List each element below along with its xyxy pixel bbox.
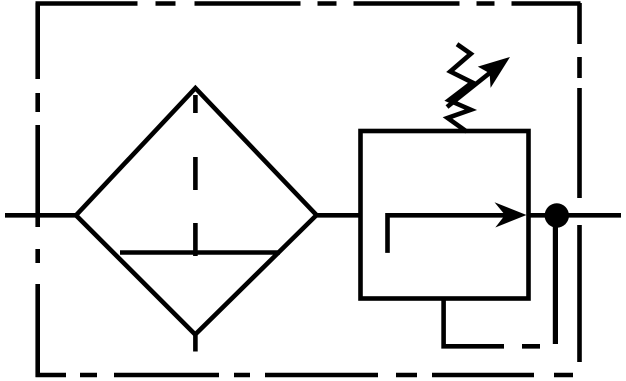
- junction node: [545, 203, 569, 227]
- output port wire: [529, 213, 622, 218]
- adjustment arrowhead: [478, 57, 510, 88]
- regulator body R1: [361, 131, 529, 299]
- wire filter to regulator: [317, 213, 361, 218]
- vent dash segment: [522, 344, 540, 349]
- enclosure border bottom: [36, 373, 574, 378]
- enclosure border left: [35, 3, 40, 377]
- regulator flow path line: [388, 215, 506, 253]
- adjustment spring: [448, 44, 473, 131]
- filter element dashed centerline: [193, 95, 198, 256]
- drain stub below filter: [193, 334, 198, 352]
- enclosure border right: [577, 3, 582, 362]
- separator baffle line: [120, 250, 280, 255]
- adjustment arrow shaft: [447, 64, 501, 107]
- regulator flow arrowhead: [495, 202, 527, 227]
- filter F1 diamond body: [76, 88, 317, 334]
- input port wire: [5, 213, 76, 218]
- enclosure border top: [36, 1, 582, 6]
- vent line under regulator: [444, 299, 504, 347]
- pilot line from node: [553, 222, 558, 344]
